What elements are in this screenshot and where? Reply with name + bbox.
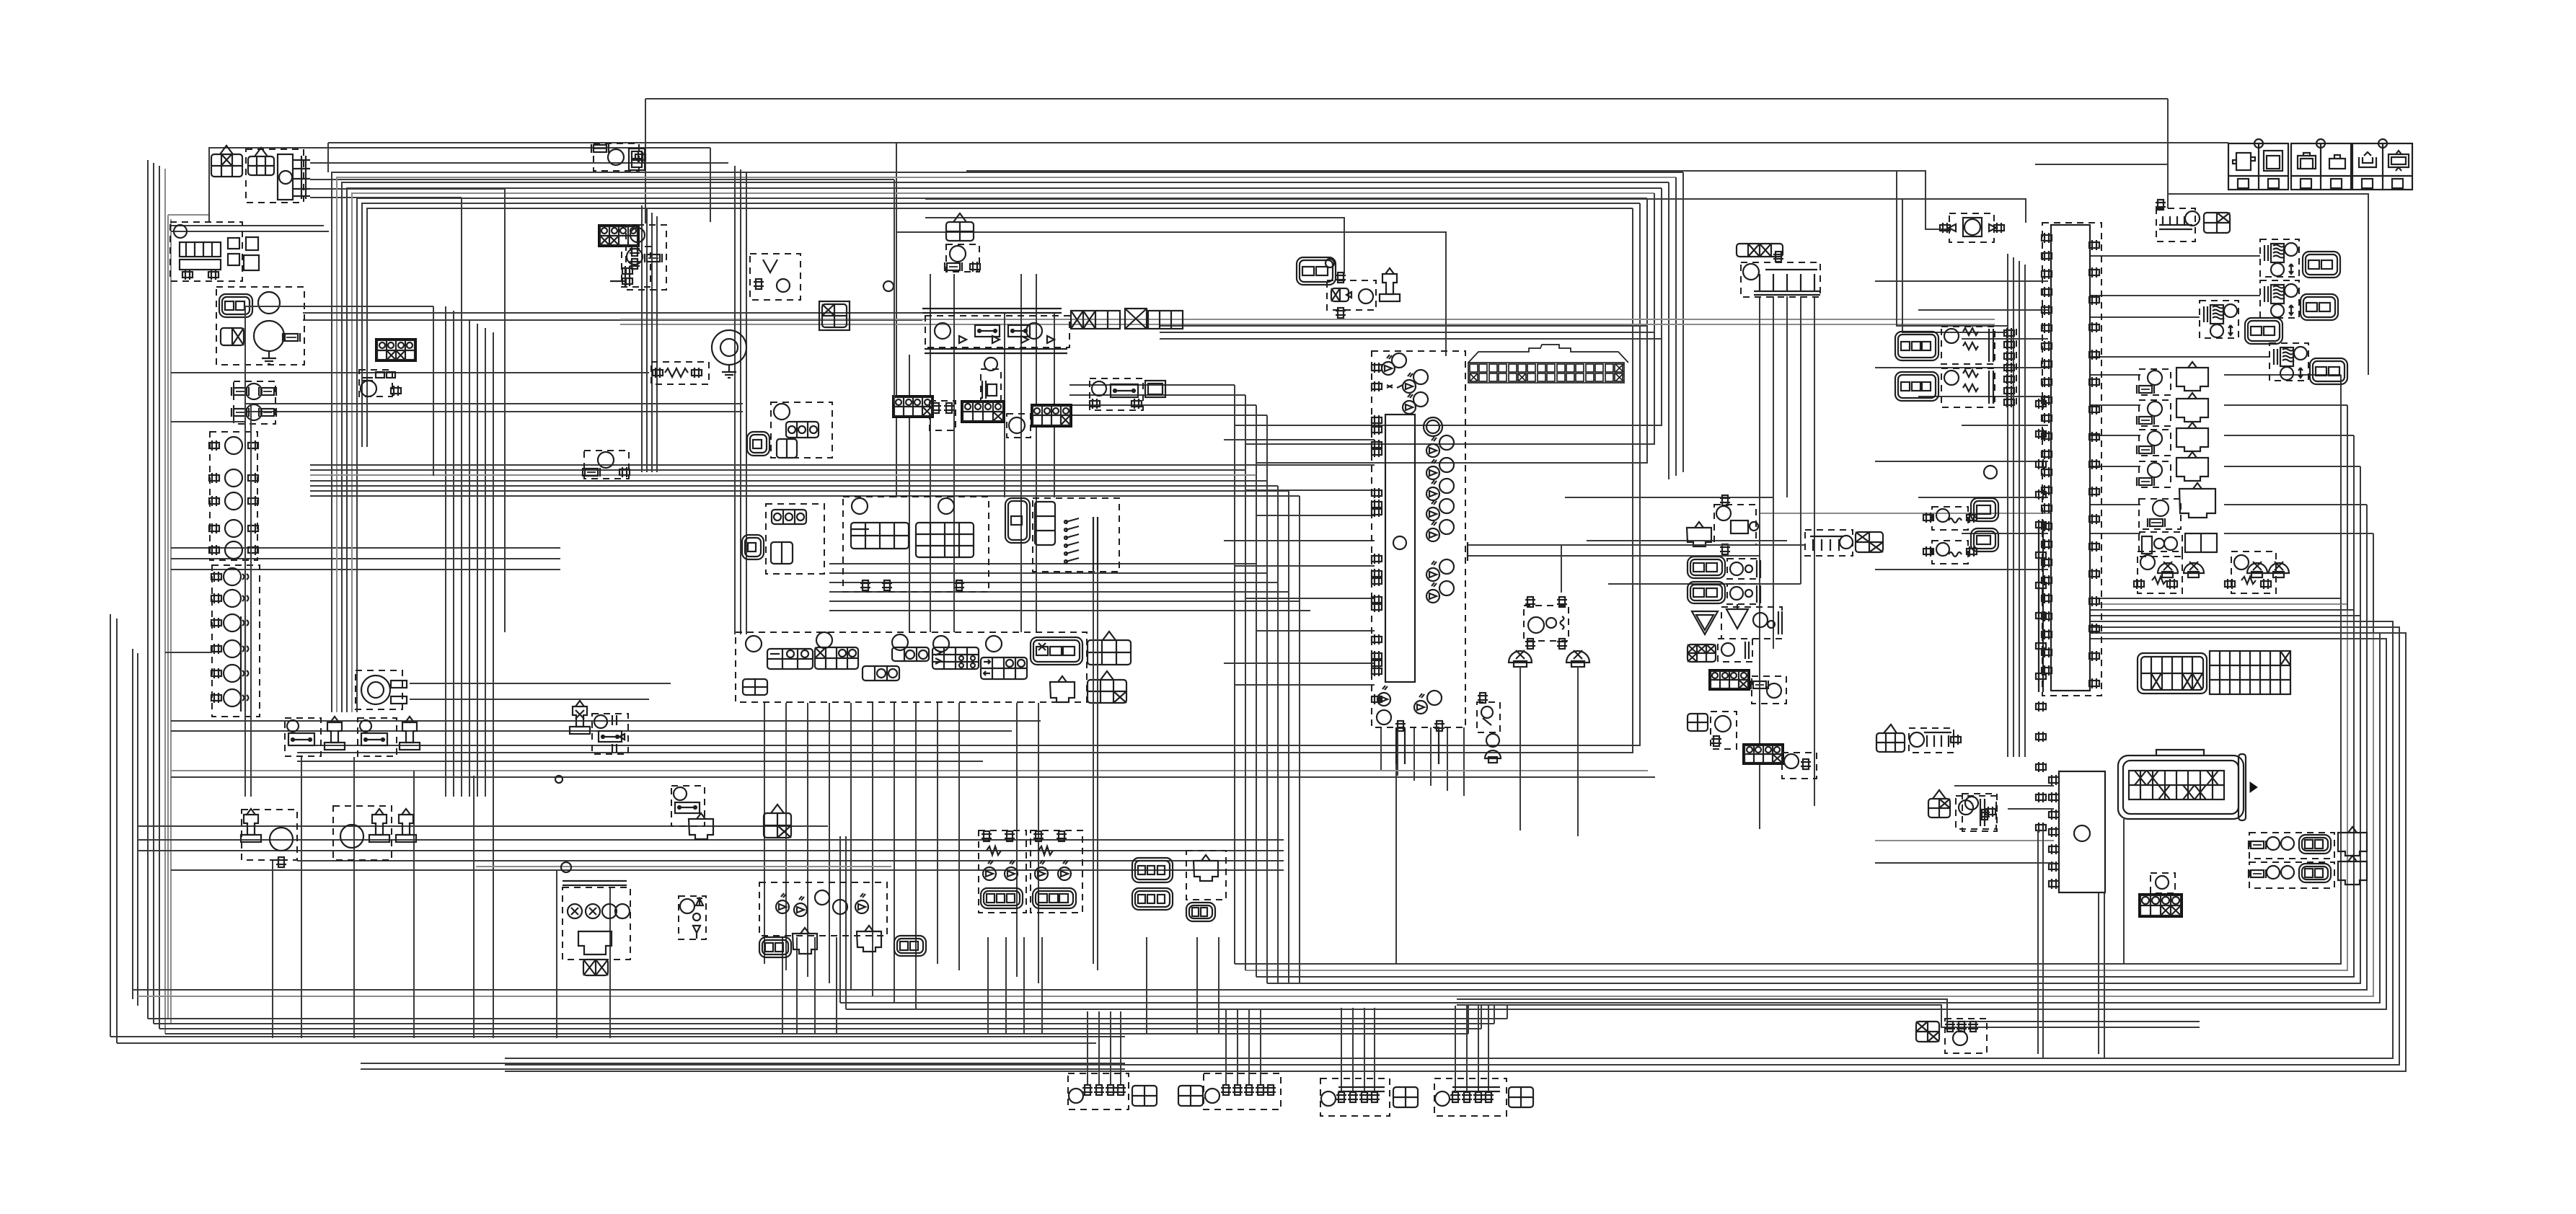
wire: mid horizontal bundle bbox=[310, 465, 1300, 983]
wire: trim sender drops bbox=[1565, 296, 1814, 829]
wire: top-left cluster feeders bbox=[209, 148, 894, 222]
fuse strip right of rectifier bbox=[1071, 309, 1183, 329]
2x2 grid lower bbox=[1688, 712, 1737, 749]
relay 2 with solenoid bbox=[358, 717, 420, 756]
diagnostic unit rectangle bbox=[2049, 771, 2105, 892]
pulser coil cluster bbox=[742, 504, 824, 574]
wire: bottom pair to diag cluster bbox=[1457, 999, 2200, 1027]
4 circle connector bbox=[2138, 893, 2183, 918]
injector 3 bbox=[2200, 301, 2282, 344]
ECU connector grid B bbox=[2210, 651, 2290, 694]
wire: horn row feeds bbox=[137, 826, 1284, 870]
square connector mid bbox=[819, 301, 850, 330]
junction nodes bbox=[555, 776, 571, 872]
flasher lamp left bbox=[979, 830, 1026, 913]
ECU pin rail strip bbox=[2004, 328, 2046, 833]
wire: extra right risers bbox=[505, 621, 2406, 1071]
left dashed cluster lower right region bbox=[1962, 794, 1997, 831]
wire: ECU left bundle bbox=[1875, 254, 2048, 757]
ground connector cluster 2 bbox=[1178, 1086, 1203, 1106]
cam sensor row A bbox=[1688, 557, 1760, 579]
ECU main rectangle bbox=[1984, 223, 2101, 696]
fuel pump cluster bbox=[1876, 725, 1961, 753]
diagnostic big connector bbox=[2118, 750, 2257, 820]
oil pressure switch cluster bbox=[1687, 495, 1758, 554]
relay 1 with solenoid bbox=[285, 717, 345, 756]
small dashed circle bbox=[2151, 873, 2175, 893]
meter comb connector bbox=[1468, 345, 1628, 383]
pickup coil unit bottom-left bbox=[563, 881, 630, 975]
engine stop switch assembly bbox=[843, 497, 989, 592]
injector 4 bbox=[2270, 343, 2347, 384]
thermo sensor pair lower bbox=[1923, 528, 1998, 564]
battery cluster bbox=[170, 222, 259, 281]
cam sensor row B bbox=[1688, 582, 1760, 604]
fuse box assembly top-left bbox=[246, 148, 310, 203]
wire: diag feeds bbox=[1875, 786, 2054, 1058]
starter motor cluster bbox=[216, 287, 304, 365]
wire: bottom second bus bbox=[361, 1063, 1125, 1069]
sensor row 4 bbox=[2137, 452, 2208, 487]
oil level sensor connector bbox=[359, 338, 417, 396]
wire: top long line bbox=[328, 143, 2228, 497]
taillight connectors below bbox=[1132, 888, 1173, 910]
wire: long gray pair bbox=[476, 319, 2052, 867]
oil pump solenoid bbox=[570, 701, 590, 734]
wire: meter exit lines bbox=[1468, 542, 1805, 593]
wire: starter solenoid feeds bbox=[410, 683, 671, 699]
wire: meter feeds from R1 bbox=[1224, 440, 1375, 685]
handlebar switch column bbox=[211, 565, 260, 717]
sensor row 6 rect bbox=[2139, 532, 2217, 557]
resistor left bbox=[651, 362, 709, 384]
starter solenooid bbox=[356, 670, 407, 709]
ground connector cluster 5 bbox=[1434, 1078, 1533, 1116]
wire: relay row feeds bbox=[171, 721, 1041, 761]
fuel sender cluster top bbox=[591, 143, 645, 171]
meter assembly bbox=[1372, 351, 1465, 764]
diode chain column bbox=[679, 896, 706, 939]
tail lamp cluster bbox=[1132, 851, 1226, 921]
flasher lamp right bbox=[1031, 830, 1082, 913]
wire: meter bottom drops bbox=[1381, 727, 1464, 964]
oil temp sensor cluster bbox=[1524, 597, 1569, 649]
main switch column bbox=[209, 432, 258, 560]
wire: second long line top bbox=[645, 99, 2168, 229]
O2 sensor cluster bbox=[2134, 551, 2289, 593]
thermo switch bbox=[583, 451, 630, 479]
bottom right engine cluster bbox=[1928, 790, 1996, 829]
CDI connector row 1 bbox=[892, 395, 1072, 438]
wire: bottom main bus with right risers bbox=[133, 598, 2386, 1009]
black 4-circle connector B bbox=[1742, 743, 1817, 779]
relay assembly right of CDI bbox=[1090, 378, 1165, 410]
wire: ECU right sensor feeds bbox=[2090, 256, 2373, 633]
main fuse pair bbox=[231, 381, 276, 424]
wire: bottom-left bus bbox=[110, 1006, 1507, 1043]
handlebar big connectors bbox=[1031, 632, 1131, 703]
start switch relay small bbox=[671, 786, 713, 839]
rectifier regulator assembly bbox=[922, 309, 1069, 353]
wire: handlebar-to-ground verticals bbox=[764, 703, 1038, 1009]
wire: center-right vertical bundle R1 bbox=[1069, 385, 1267, 983]
remote control connector bbox=[1805, 530, 1883, 556]
connector: top-left X-connector bbox=[211, 146, 242, 177]
ground connector cluster 3 bbox=[1204, 1073, 1281, 1109]
sensor row 5 big bbox=[2139, 483, 2215, 529]
TPS coil small bbox=[981, 358, 1001, 401]
bottom right small cluster bbox=[1916, 1019, 1987, 1053]
ignition coil 2 with connector bbox=[1895, 368, 1995, 407]
ignition coil 1 with connector bbox=[1895, 327, 1995, 364]
wire: center verticals C2 C3 bbox=[642, 166, 1054, 634]
ground connector cluster 4 bbox=[1320, 1078, 1418, 1116]
engine temp sender connector bbox=[598, 224, 650, 287]
wire: fuse panel link bbox=[2035, 99, 2368, 375]
wire: bottom-left verticals bbox=[273, 757, 610, 1038]
ground joint circle bbox=[712, 330, 746, 378]
thermo sensor pair upper bbox=[1923, 498, 1998, 530]
injector driver cluster bbox=[2156, 200, 2230, 242]
power tilt relay bbox=[592, 714, 628, 754]
horn left bbox=[241, 809, 297, 867]
lower right sensor pair rows bbox=[2249, 827, 2367, 888]
injector 1 bbox=[2260, 239, 2340, 278]
sensor row 1 bbox=[2137, 362, 2208, 395]
wire: left vertical bus bbox=[110, 160, 209, 1043]
alternator cluster left-center bbox=[610, 225, 666, 290]
headlight cluster bbox=[759, 882, 926, 957]
wire: ground cluster drops bbox=[1088, 1006, 1488, 1093]
fuel pump relay top bbox=[945, 213, 980, 272]
handlebar switch assembly box bbox=[736, 632, 1087, 702]
triangle sensor pair bbox=[1692, 604, 1782, 639]
clutch switch grid bbox=[764, 805, 791, 838]
ground connector cluster 1 bbox=[1068, 1073, 1157, 1109]
wire: left bus links bbox=[171, 226, 560, 570]
meter dome sensors bbox=[1509, 650, 1589, 836]
wire: lamp cluster drops bbox=[782, 937, 1219, 1034]
wire: top center drops bbox=[896, 171, 2008, 356]
fuse panel top right bbox=[2228, 139, 2412, 190]
wire: mid-left long lines bbox=[171, 313, 922, 412]
meter switch small bbox=[1477, 693, 1501, 763]
neutral switch join bbox=[750, 254, 800, 300]
neutral relay cluster bbox=[1297, 257, 1400, 318]
horn right bbox=[333, 806, 416, 860]
black 4-circle connector A bbox=[1708, 669, 1786, 704]
trim sender assembly bbox=[1005, 498, 1119, 572]
ECU connector grid A bbox=[2138, 653, 2207, 694]
wire: center vertical bundle C1 bbox=[446, 306, 493, 797]
TPS sensor cluster bbox=[747, 402, 832, 458]
sensor row 3 bbox=[2137, 422, 2208, 456]
backup buzzer bbox=[1940, 213, 2004, 242]
wire: low-mid bundle bbox=[829, 564, 1310, 611]
trailer switch grid bbox=[1737, 244, 1820, 297]
injector 2 bbox=[2260, 280, 2338, 320]
X-grid connector small bbox=[1688, 639, 1752, 662]
sensor row 2 bbox=[2137, 393, 2208, 426]
wire: top bus bundle with right risers bbox=[297, 172, 1683, 753]
wire: diag ground drops bbox=[2099, 819, 2124, 1058]
wire: left region fillers bbox=[165, 148, 1098, 970]
